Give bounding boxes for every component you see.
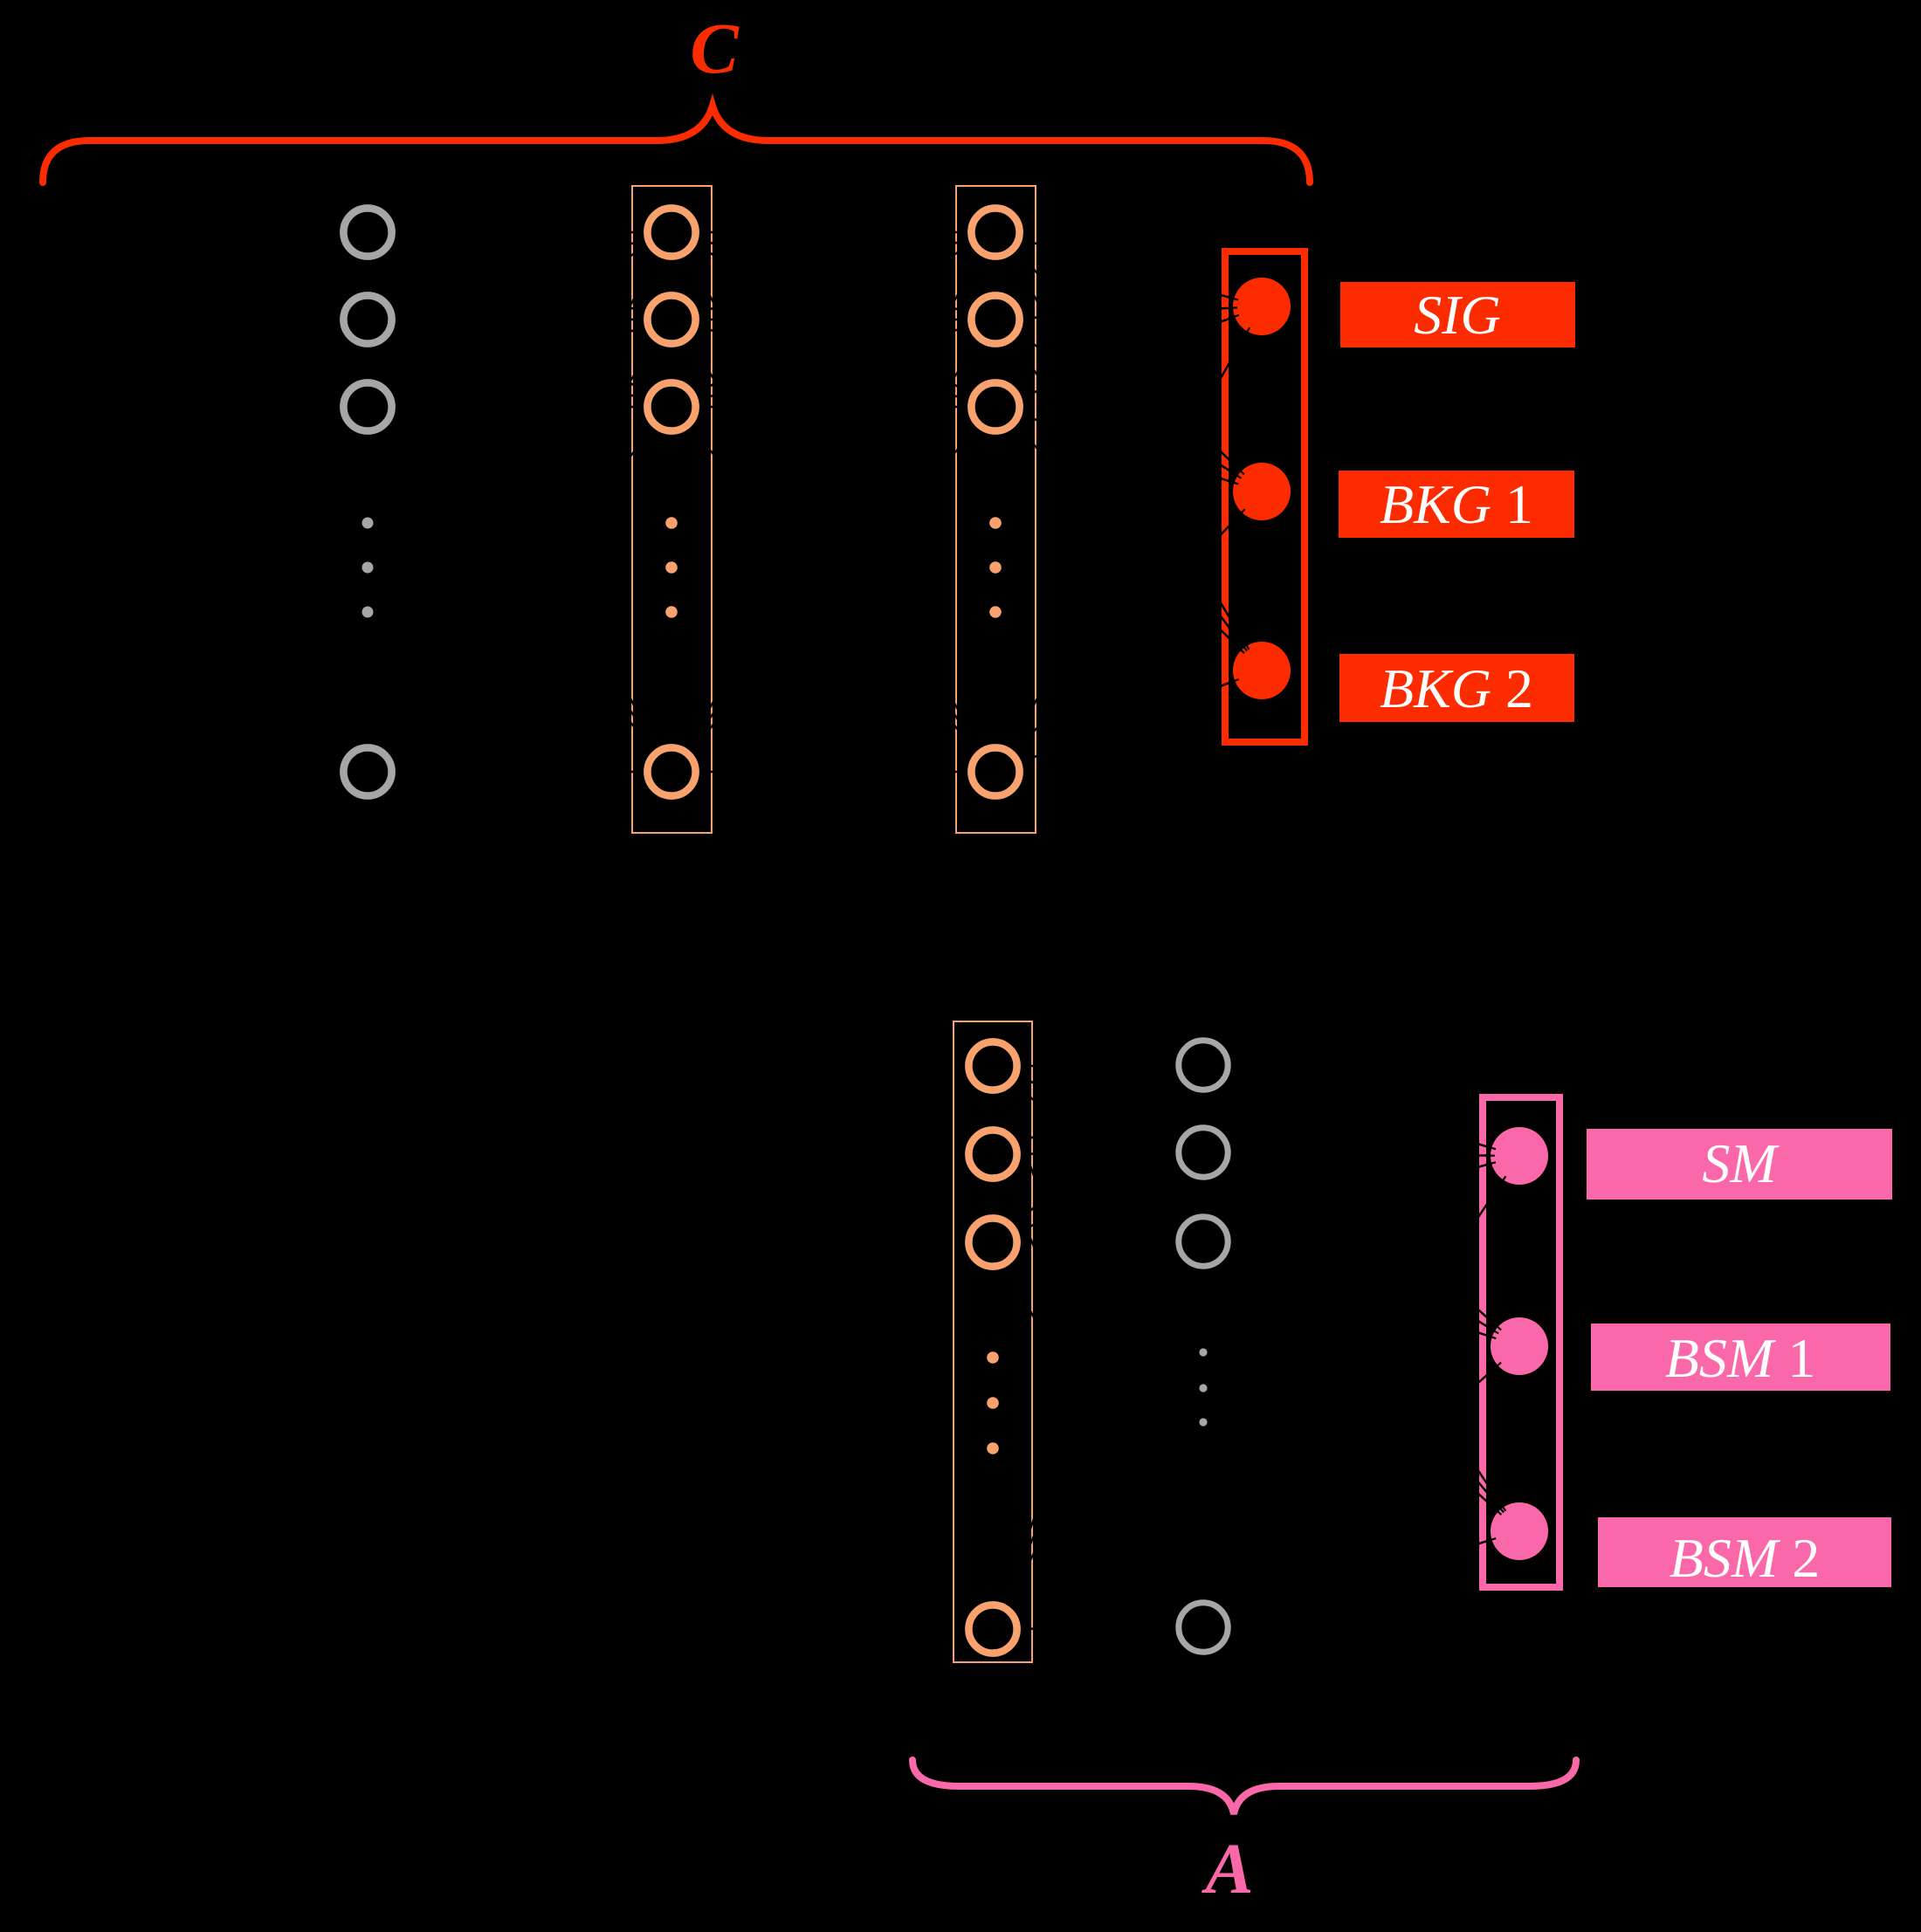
wire AH-OA:4-2 [1203, 1346, 1519, 1627]
dots input ellipsis 2 [362, 562, 374, 574]
wire AI-AH:3-1 [993, 1065, 1203, 1242]
dots hidden2 ellipsis 3 [989, 606, 1002, 618]
wire AH-OA:4-3 [1203, 1531, 1519, 1627]
wire H2-OC:2-2 [995, 320, 1262, 492]
wire H1-H2:3-2 [671, 320, 995, 407]
wire AI-AH:3-4 [993, 1242, 1203, 1627]
label BKG 2 [1339, 654, 1574, 722]
wire AH-OA:1-2 [1203, 1065, 1519, 1346]
wire H1-H2:2-2 [671, 319, 995, 321]
node input I3 [343, 382, 391, 430]
wire AI-AH:2-4 [993, 1154, 1203, 1627]
dots adversary input ellipsis 1 [987, 1351, 999, 1364]
wire AH-OA:1-3 [1203, 1065, 1519, 1531]
wire I-H1:3-2 [368, 320, 671, 407]
node hidden2 H2-3 [971, 382, 1019, 430]
wire AI-AH:3-2 [993, 1152, 1203, 1242]
wire I-H1:1-2 [368, 232, 671, 320]
wire AH-OA:1-1 [1203, 1065, 1519, 1156]
wire H1-H2:1-4 [671, 232, 995, 772]
wire I-H1:1-4 [368, 232, 671, 772]
wire AI-AH:1-4 [993, 1066, 1203, 1627]
wire H2-OC:4-1 [995, 306, 1262, 772]
wire AI-AH:2-1 [993, 1065, 1203, 1154]
box output layer A (pink) [1483, 1097, 1560, 1587]
wire AI-AH:4-1 [993, 1065, 1203, 1629]
dots hidden2 ellipsis 2 [989, 561, 1002, 574]
wire tips at node A BSM1 [1488, 1324, 1501, 1369]
wire H1-H2:3-1 [671, 232, 995, 407]
dots hidden2 ellipsis 1 [989, 517, 1002, 529]
wire AI-AH:4-3 [993, 1241, 1203, 1629]
wire H2-OC:3-3 [995, 407, 1262, 670]
wire AI-AH:1-3 [993, 1066, 1203, 1241]
wire AI-AH:3-3 [993, 1241, 1203, 1242]
wire I-H1:1-1 [368, 231, 671, 234]
wire I-H1:4-3 [368, 407, 671, 772]
node hidden1 H1-2 [647, 295, 695, 343]
label BSM 1 [1591, 1324, 1890, 1391]
wire I-H1:3-1 [368, 232, 671, 407]
wire H1-H2:1-1 [671, 231, 995, 234]
wire AI-AH:4-4 [993, 1627, 1203, 1629]
wire tips at node C BKG1 [1230, 469, 1245, 516]
node hidden1 H1-1 [647, 208, 695, 256]
dots adversary hidden ellipsis 2 [1199, 1384, 1207, 1392]
dots adversary hidden ellipsis 1 [1199, 1348, 1207, 1356]
wire I-H1:4-2 [368, 320, 671, 772]
node output A BSM1 [1491, 1317, 1548, 1375]
wire I-H1:4-1 [368, 232, 671, 772]
wire H1-H2:1-2 [671, 232, 995, 320]
wire H1-H2:2-3 [671, 320, 995, 407]
wire AH-OA:3-2 [1203, 1241, 1519, 1346]
wire tips at node C SIG [1229, 298, 1250, 335]
wire H1-H2:1-3 [671, 232, 995, 407]
svg-text:SM: SM [1702, 1132, 1780, 1194]
wire H1-H2:4-1 [671, 232, 995, 772]
wire AI-AH:1-1 [993, 1065, 1203, 1066]
wire AI-AH:2-2 [993, 1152, 1203, 1154]
box input layer A (bottom network, orange) [954, 1021, 1032, 1662]
wire AH-OA:2-3 [1203, 1152, 1519, 1531]
svg-text:A: A [1201, 1828, 1253, 1908]
dots hidden1 ellipsis 2 [665, 561, 678, 574]
node adversary hidden G3 [1179, 1217, 1228, 1266]
wire I-H1:2-1 [368, 232, 671, 320]
node input I4 [343, 747, 391, 795]
wire H2-OC:1-1 [995, 232, 1262, 306]
node input I1 [343, 208, 391, 256]
dots adversary input ellipsis 3 [987, 1442, 999, 1454]
node output C SIG [1233, 278, 1291, 335]
wire H2-OC:4-2 [995, 492, 1262, 772]
node hidden2 H2-1 [971, 208, 1019, 256]
node adversary hidden G2 [1179, 1128, 1228, 1177]
brace A (bottom, pink) [912, 1760, 1576, 1814]
wire H2-OC:1-2 [995, 232, 1262, 492]
wire I-H1:2-2 [368, 319, 671, 321]
wire tips at node A SM [1486, 1147, 1505, 1184]
box hidden layer 2 (top network) [956, 186, 1036, 833]
brace C (top, red) [43, 106, 1310, 182]
node adversary input O3 [968, 1218, 1016, 1266]
wire AH-OA:3-3 [1203, 1241, 1519, 1531]
wire tips at node A BSM2 [1488, 1504, 1506, 1542]
node hidden2 H2-2 [971, 295, 1019, 343]
label SIG [1340, 282, 1575, 347]
svg-text:SIG: SIG [1414, 284, 1501, 346]
node adversary input O1 [968, 1042, 1016, 1090]
dots adversary input ellipsis 2 [987, 1397, 999, 1409]
wire AH-OA:2-2 [1203, 1152, 1519, 1346]
box output layer C (red) [1225, 251, 1305, 742]
box hidden layer 1 (top network) [632, 186, 712, 833]
wire I-H1:2-4 [368, 320, 671, 772]
wire H2-OC:2-3 [995, 320, 1262, 670]
wire AH-OA:4-1 [1203, 1156, 1519, 1627]
wire H1-H2:2-1 [671, 232, 995, 320]
svg-text:BKG 2: BKG 2 [1380, 657, 1533, 719]
dots hidden1 ellipsis 3 [665, 606, 678, 618]
svg-text:BSM 1: BSM 1 [1665, 1327, 1815, 1389]
svg-text:BKG 1: BKG 1 [1380, 473, 1533, 535]
wire H2-OC:3-2 [995, 407, 1262, 492]
wire AI-AH:1-2 [993, 1066, 1203, 1152]
node output C BKG2 [1233, 642, 1291, 699]
wire AI-AH:4-2 [993, 1152, 1203, 1629]
label BKG 1 [1339, 471, 1574, 538]
wire AH-OA:3-1 [1203, 1156, 1519, 1241]
node hidden2 H2-4 [971, 747, 1019, 795]
node output C BKG1 [1233, 463, 1291, 520]
label SM [1587, 1129, 1892, 1200]
node hidden1 H1-3 [647, 382, 695, 430]
node input I2 [343, 295, 391, 343]
wire H1-H2:4-2 [671, 320, 995, 772]
wire H1-H2:3-4 [671, 407, 995, 772]
wire I-H1:2-3 [368, 320, 671, 407]
node adversary input O4 [968, 1605, 1016, 1653]
node hidden1 H1-4 [647, 747, 695, 795]
wire H1-H2:3-3 [671, 406, 995, 409]
node adversary hidden G1 [1179, 1041, 1228, 1090]
dots hidden1 ellipsis 1 [665, 517, 678, 529]
dots adversary hidden ellipsis 3 [1199, 1418, 1207, 1426]
wire H1-H2:4-4 [671, 771, 995, 773]
wire I-H1:4-4 [368, 771, 671, 773]
wire I-H1:3-4 [368, 407, 671, 772]
wire AI-AH:2-3 [993, 1154, 1203, 1241]
node adversary hidden G4 [1179, 1603, 1228, 1652]
wire AH-OA:2-1 [1203, 1152, 1519, 1156]
wire tips at node C BKG2 [1231, 643, 1250, 683]
wire H2-OC:4-3 [995, 670, 1262, 772]
wire H2-OC:3-1 [995, 306, 1262, 407]
dots input ellipsis 3 [362, 607, 374, 618]
node output A BSM2 [1491, 1502, 1548, 1560]
node adversary input O2 [968, 1130, 1016, 1178]
wire I-H1:1-3 [368, 232, 671, 407]
label BSM 2 [1598, 1517, 1891, 1587]
wire H2-OC:2-1 [995, 306, 1262, 320]
wire I-H1:3-3 [368, 406, 671, 409]
dots input ellipsis 1 [362, 518, 374, 529]
wire H1-H2:4-3 [671, 407, 995, 772]
wire H1-H2:2-4 [671, 320, 995, 772]
svg-text:C: C [690, 8, 740, 88]
svg-text:BSM 2: BSM 2 [1670, 1527, 1820, 1589]
wire H2-OC:1-3 [995, 232, 1262, 670]
node output A SM [1491, 1127, 1548, 1185]
